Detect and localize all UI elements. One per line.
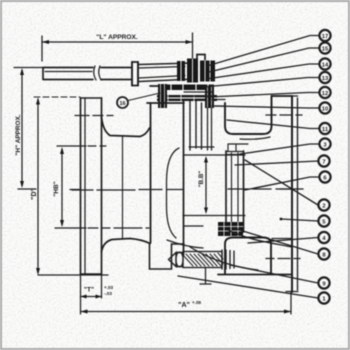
callout circle 8: [318, 248, 329, 259]
callout circle 9: [318, 277, 329, 288]
hub fillet bottom: [102, 239, 151, 253]
stem nut hatch lines: [181, 59, 210, 82]
handle tube segment: [101, 68, 131, 80]
seat ring column: [226, 144, 248, 232]
body shelf line right: [272, 238, 292, 240]
leader to 4: [248, 238, 318, 244]
stem nut cluster: [177, 59, 215, 83]
callout circle 7: [318, 155, 329, 166]
gland plate top: [162, 85, 214, 91]
centerline: [70, 189, 303, 190]
drain below stub: [200, 268, 211, 284]
stem tip: [197, 55, 205, 61]
bowl curve lower: [190, 247, 258, 270]
dimension D dim line: [34, 97, 108, 275]
bowl curve left: [167, 240, 203, 248]
callout circle 11: [319, 123, 330, 134]
seat line top: [184, 154, 245, 156]
dimension L dim line: [42, 33, 193, 62]
left flange outline: [81, 98, 102, 274]
U channel top right: [225, 96, 272, 134]
leader to 5: [281, 219, 318, 221]
body step line center: [184, 225, 203, 227]
right flange bolt dash bottom: [266, 258, 300, 260]
callout circle 5: [318, 215, 329, 226]
gland bolt left: [158, 84, 167, 108]
leader to 15: [209, 48, 319, 72]
leader for 16: [128, 93, 160, 101]
callout circle 14: [319, 58, 330, 69]
leader to 10: [215, 106, 319, 108]
bowl curve right: [228, 230, 292, 247]
dimension HB dim line: [55, 146, 149, 228]
callout circle 3: [319, 138, 330, 149]
body top plate: [147, 102, 184, 104]
ball side line: [167, 148, 180, 238]
seat line upper: [189, 146, 214, 148]
leader to 17: [207, 36, 319, 67]
handle collar: [132, 62, 138, 86]
handle grip: [43, 68, 93, 80]
handle shank: [139, 63, 195, 82]
callout circle 2: [318, 199, 329, 210]
leader to 6: [245, 177, 319, 190]
leader to 11: [227, 120, 319, 129]
callout circle 10: [319, 102, 330, 113]
leader to 3: [240, 144, 319, 154]
gland plate lower: [150, 86, 217, 101]
flange bolt dash top: [75, 115, 113, 117]
seat line bottom: [183, 215, 245, 217]
flange bolt dash bottom: [74, 227, 76, 229]
dimension B dim line: [204, 156, 208, 214]
body bottom line right: [218, 274, 292, 276]
leader to 14: [206, 64, 319, 79]
callout circle 13: [319, 72, 330, 83]
dimension H dim line: [14, 68, 43, 190]
left flange extension lines to T/A: [81, 274, 102, 314]
leader to 12: [208, 93, 319, 98]
bonnet right wall: [208, 108, 212, 150]
callout circle 6: [319, 171, 330, 182]
stem column wall: [183, 100, 185, 255]
gland bolt right: [205, 86, 214, 108]
bonnet wall: [150, 103, 152, 243]
leader to 7: [235, 161, 318, 165]
callout circle 12: [319, 87, 330, 98]
leader to 1: [178, 276, 318, 298]
bottom boss step: [150, 244, 185, 270]
hub fillet top: [102, 117, 150, 137]
right flange: [272, 96, 298, 292]
dome bottom right: [225, 238, 271, 275]
right flange bolt dash top: [266, 114, 302, 116]
leader to 13: [203, 78, 319, 88]
leader to 2: [245, 160, 318, 205]
body top lines right: [272, 95, 293, 97]
callout circle 15: [319, 42, 330, 53]
callout circle 1: [318, 292, 329, 303]
dimension A dim line: [81, 310, 292, 314]
callout circle 17: [319, 30, 330, 41]
dimension T dim line: [81, 295, 102, 299]
bore hidden line: [122, 137, 124, 239]
packing box lines: [190, 101, 202, 150]
label 16 circle: [117, 97, 128, 108]
right flange extension: [290, 292, 292, 314]
trunnion block: [218, 222, 243, 236]
right flange bottom face: [286, 291, 298, 293]
leader to 9: [230, 265, 318, 283]
callout circle 4: [318, 232, 329, 243]
handle break marks: [94, 66, 101, 80]
drain plug: [169, 250, 235, 269]
leader to 8: [233, 228, 318, 254]
